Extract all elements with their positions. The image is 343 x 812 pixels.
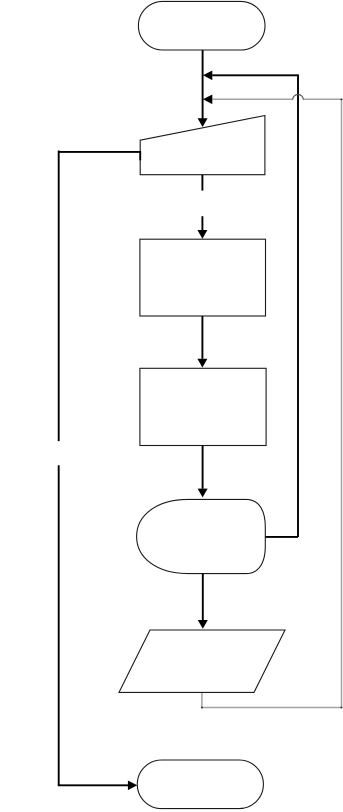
wire stub below trapezoid — [201, 175, 203, 191]
wire delay shape to parallelogram — [202, 574, 204, 620]
arrowhead into delay shape — [198, 489, 208, 498]
arrowhead into process box 1 — [197, 230, 207, 239]
terminator end (bottom stadium) — [137, 760, 263, 809]
arrowhead gray loop-back — [203, 95, 212, 105]
wire box1 to box2 — [201, 316, 203, 359]
junction dot gray corner top-right — [341, 99, 343, 101]
delay/rounded shape — [137, 499, 266, 573]
trapezoid manual-operation shape — [140, 116, 265, 175]
arrowhead into bottom terminator — [128, 781, 137, 791]
arrowhead into parallelogram — [198, 620, 208, 629]
wire stub from parallelogram bottom to gray loop-back — [201, 692, 203, 708]
parallelogram data shape — [119, 630, 285, 692]
wire stub down trapezoid left edge — [139, 151, 141, 160]
wire loop-back (gray) bottom horizontal — [202, 707, 342, 709]
wire box2 to delay shape — [202, 446, 204, 489]
arrowhead black loop-back — [203, 71, 212, 81]
wire loop-back (black) horizontal into main line — [212, 74, 298, 76]
wire loop-back (gray) right vertical — [341, 99, 343, 708]
wire loop-back (gray) horizontal with hop over black line — [212, 98, 341, 100]
arrowhead into process box 2 — [197, 359, 207, 368]
wire into bottom terminator — [58, 784, 128, 786]
wire left vertical lower segment (after gap) — [58, 465, 60, 785]
arrowhead into trapezoid — [198, 118, 208, 127]
junction dot gray corner bottom-right — [341, 707, 343, 709]
process box 2 — [140, 368, 266, 445]
wire from delay shape right to loop-back — [265, 536, 298, 538]
wire loop-back (black) vertical right side — [297, 74, 299, 537]
wire left vertical upper segment — [58, 151, 60, 442]
wire from trapezoid left toward bottom terminator (horizontal) — [59, 151, 141, 153]
process box 1 — [140, 239, 266, 316]
wire into process box 1 (after gap) — [201, 216, 203, 230]
terminator start (top stadium) — [138, 1, 265, 50]
wire from start down to trapezoid — [202, 50, 204, 119]
junction dot gray corner bottom-left — [201, 707, 203, 709]
line hop on gray wire — [293, 94, 303, 99]
